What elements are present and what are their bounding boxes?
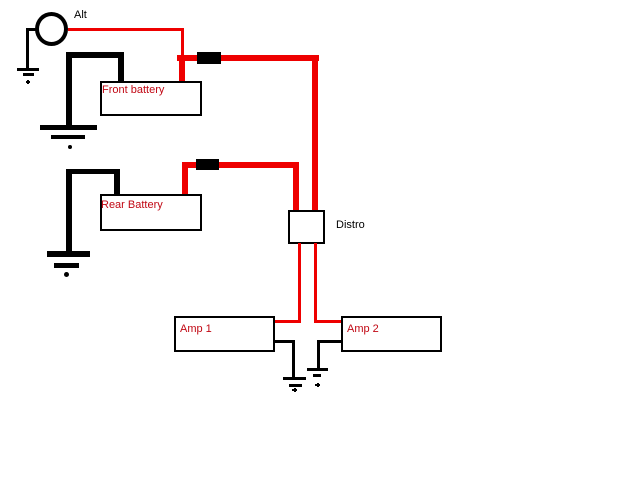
wire red thin distro to amp2 vertical — [314, 243, 317, 323]
wire black thick rear horizontal — [66, 169, 120, 174]
wire red thick front horizontal — [177, 55, 319, 61]
wire red thick rear horizontal — [182, 162, 299, 168]
label Front battery — [102, 85, 164, 96]
wire alt ground vertical — [26, 28, 29, 68]
wire red thin amp1 horizontal — [275, 320, 301, 323]
label Distro — [336, 220, 365, 231]
wire black thick rear vertical right — [114, 169, 120, 195]
wire red thick front vertical to distro — [312, 55, 318, 210]
battery rear box — [100, 194, 202, 231]
battery front box — [100, 81, 202, 116]
label Amp 1 — [180, 324, 212, 335]
ground rear dot — [64, 272, 69, 277]
ground front bar2 — [51, 135, 85, 139]
fuse F1 — [197, 52, 221, 64]
wire red thick rear vertical to battery — [182, 162, 188, 194]
amp1 box — [174, 316, 275, 352]
ground amp1 plus — [292, 389, 297, 391]
wire black amp2 vertical — [317, 340, 320, 369]
wire red thick rear vertical to distro — [293, 162, 299, 210]
amp2 box — [341, 316, 442, 352]
wire black thick rear vertical left — [66, 169, 72, 252]
wire black amp1 horizontal — [275, 340, 295, 343]
ground amp2 bar2 — [313, 374, 321, 377]
wire black amp2 horizontal — [317, 340, 342, 343]
ground amp1 bar2 — [289, 384, 302, 387]
wire black amp1 vertical — [292, 340, 295, 377]
ground alt bar2 — [23, 73, 34, 76]
ground alt plus — [26, 81, 30, 83]
ground alt bar1 — [17, 68, 39, 71]
ground front dot — [68, 145, 72, 149]
ground rear bar2 — [54, 263, 79, 268]
wire red thin alt vertical — [181, 28, 184, 56]
label Rear Battery — [101, 200, 163, 211]
fuse F2 — [196, 159, 219, 170]
wire red thick front vertical to battery — [179, 55, 185, 82]
ground front bar1 — [40, 125, 97, 130]
alternator ALT — [35, 12, 68, 46]
wire red thin amp2 horizontal — [314, 320, 342, 323]
distro box — [288, 210, 325, 244]
label Amp 2 — [347, 324, 379, 335]
ground amp1 bar1 — [283, 377, 306, 380]
ground amp2 bar1 — [307, 368, 328, 371]
ground rear bar1 — [47, 251, 90, 257]
wire black thick front vertical right — [118, 52, 124, 82]
wire red thin alt horizontal — [68, 28, 184, 31]
ground amp2 plus — [315, 384, 320, 386]
wire black thick front vertical left — [66, 52, 72, 126]
wire black thick front horizontal — [66, 52, 124, 58]
wire red thin distro to amp1 vertical — [298, 243, 301, 323]
wire alt ground horizontal — [26, 28, 37, 31]
label Alt — [74, 10, 87, 21]
